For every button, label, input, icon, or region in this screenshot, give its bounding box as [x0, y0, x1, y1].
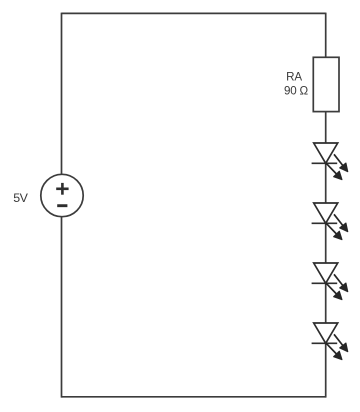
resistor RA body: [313, 57, 339, 111]
wire: LED3 to LED4: [325, 283, 327, 323]
svg-text:RA: RA: [286, 71, 302, 84]
wire: right vertical top (corner to resistor): [325, 13, 327, 58]
LED 2: [312, 203, 348, 240]
LED 1: [312, 143, 348, 180]
svg-text:90 Ω: 90 Ω: [284, 84, 309, 97]
wire: LED2 to LED3: [325, 223, 327, 263]
LED 4: [312, 323, 348, 360]
wire: left vertical upper (top corner to source): [61, 13, 63, 175]
voltage source minus sign: [57, 204, 67, 207]
wire: LED1 to LED2: [325, 163, 327, 203]
LED 3: [312, 263, 348, 300]
voltage source plus sign: [56, 183, 68, 195]
svg-text:5V: 5V: [13, 191, 28, 205]
wire: LED4 to bottom corner: [325, 343, 327, 397]
wire: top horizontal: [62, 12, 326, 14]
wire: bottom horizontal: [62, 396, 326, 398]
wire: resistor to LED1: [325, 112, 327, 143]
voltage source V1 circle: [41, 174, 83, 216]
wire: left vertical lower (source to bottom corner): [61, 216, 63, 397]
